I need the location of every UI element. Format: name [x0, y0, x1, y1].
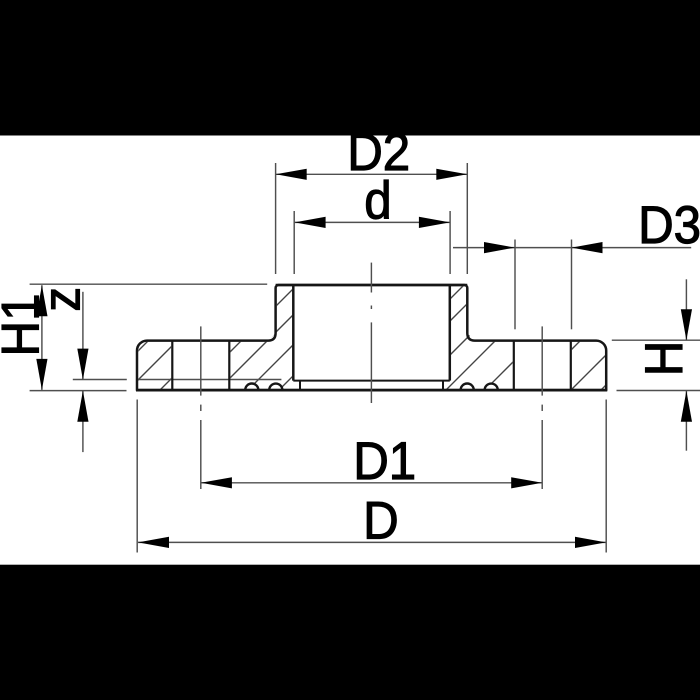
- label H: [634, 341, 693, 377]
- left bolt hole right edge: [228, 341, 230, 391]
- bore bottom step line: [293, 380, 450, 382]
- label z: [32, 287, 91, 312]
- svg-text:D: D: [363, 491, 399, 550]
- label H1: [0, 294, 50, 357]
- hatching left outer rim: [94, 335, 215, 395]
- dimension H: [612, 279, 700, 450]
- dimension D1: [201, 477, 542, 488]
- svg-text:H: H: [634, 341, 693, 377]
- recess right wall: [442, 381, 444, 391]
- dimension z: [77, 292, 88, 452]
- recess step extension line for z: [73, 379, 282, 381]
- hatching right outer rim: [526, 335, 656, 395]
- dimension D2: [276, 163, 468, 274]
- label D2: [347, 122, 410, 181]
- recess left wall: [299, 381, 301, 391]
- dimension H1: [36, 285, 47, 390]
- label d: [364, 171, 391, 230]
- svg-text:d: d: [364, 171, 391, 230]
- right bolt hole left edge: [513, 341, 515, 391]
- dimension d: [294, 211, 450, 274]
- right bolt hole right edge: [570, 341, 572, 391]
- right bolt hole centerline (dash-dot): [541, 326, 543, 489]
- dimension D3: [453, 240, 691, 330]
- flange body outline: [137, 285, 606, 390]
- hatching left hub wall and inner plate: [187, 280, 389, 395]
- left bolt hole centerline (dash-dot): [200, 326, 202, 489]
- svg-text:D3: D3: [638, 195, 700, 254]
- left bolt hole left edge: [171, 341, 173, 391]
- weep hole semicircles on bottom face: [245, 384, 498, 391]
- plate bottom extension line left: [30, 390, 127, 392]
- label D1: [353, 431, 416, 490]
- hub top extension line for H1 and z: [30, 283, 268, 285]
- label D: [363, 491, 399, 550]
- hub top face line across bore: [276, 284, 468, 287]
- dimension D: [137, 400, 606, 553]
- svg-text:z: z: [32, 287, 91, 312]
- bore right wall: [449, 285, 452, 381]
- hatching right hub wall and inner plate: [354, 280, 595, 395]
- label D3: [638, 195, 700, 254]
- top letterbox band: [0, 0, 700, 136]
- bore left wall: [292, 285, 295, 381]
- plate bottom face line: [136, 389, 607, 392]
- main centerline (dash-dot): [370, 263, 372, 403]
- svg-text:D1: D1: [353, 431, 416, 490]
- bottom letterbox band: [0, 565, 700, 700]
